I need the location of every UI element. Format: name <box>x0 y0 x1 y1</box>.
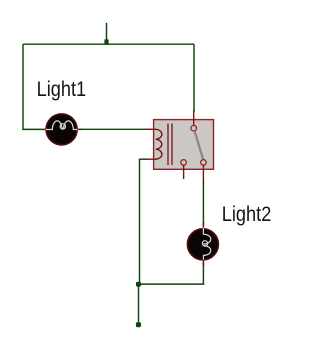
lamp Light2 body <box>188 229 219 260</box>
wire to Light1 left pin <box>22 128 44 130</box>
relay common contact circle <box>191 125 197 131</box>
lamp Light1 filament <box>46 121 78 130</box>
relay NC pin <box>183 165 185 179</box>
wire Light1 to relay coil top pin <box>79 128 147 130</box>
lamp Light2 filament <box>203 228 210 260</box>
terminal dot bottom <box>136 322 141 327</box>
relay RL1 <box>146 110 214 182</box>
relay core bars <box>167 124 169 166</box>
relay NC contact circle <box>181 160 187 166</box>
wire bottom horizontal <box>139 283 205 285</box>
lamp Light2 pins <box>202 222 204 231</box>
relay NO contact circle <box>201 160 207 166</box>
relay coil bottom pin <box>146 158 157 160</box>
wire top horizontal <box>23 43 194 45</box>
wire relay NO pin to Light2 <box>202 181 204 227</box>
wire top stub vertical <box>106 23 108 44</box>
wire coil bottom to left vertical <box>140 158 148 160</box>
svg-text:Light2: Light2 <box>222 203 271 226</box>
relay coil arcs <box>156 129 162 159</box>
wire bottom tail <box>138 284 140 322</box>
lamp Light1 pins <box>43 128 52 130</box>
lamp Light1 body <box>46 114 77 145</box>
junction dot top <box>104 39 108 44</box>
relay NO pin <box>202 165 204 181</box>
junction dot bottom <box>136 282 141 287</box>
relay moving contact <box>195 131 204 160</box>
relay coil top pin <box>146 128 157 130</box>
svg-text:Light1: Light1 <box>37 78 87 101</box>
wire Light2 to bottom corner <box>202 262 204 284</box>
wire right vertical to relay common pin <box>193 44 195 112</box>
relay common pin <box>193 110 195 125</box>
wire left lower vertical <box>139 159 141 285</box>
wire left vertical <box>22 44 24 129</box>
relay body <box>154 120 214 170</box>
